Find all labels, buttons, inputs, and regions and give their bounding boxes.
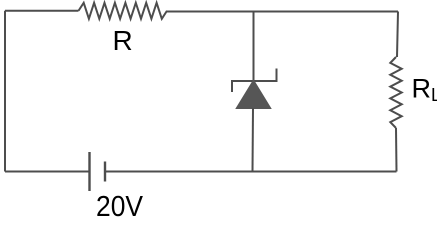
battery short plate (-): [104, 162, 106, 182]
wire: zener branch top (node to cathode): [253, 12, 255, 81]
svg-text:RL: RL: [412, 74, 437, 106]
wire: zener anode to bottom wire: [252, 108, 255, 172]
wire: battery to bottom-right corner: [105, 171, 397, 173]
svg-text:R: R: [113, 25, 133, 56]
battery long plate (+): [88, 152, 90, 191]
wire: top-left horizontal lead: [5, 10, 79, 12]
resistor RL: [390, 57, 401, 128]
wire: top-right vertical down to RL: [397, 12, 398, 58]
wire: RL down to bottom-right corner: [395, 128, 398, 172]
wire: top horizontal, resistor to top-right corner: [167, 11, 398, 13]
zener diode D1 anode triangle: [237, 81, 270, 108]
wire: left vertical side: [4, 11, 6, 172]
wire: bottom-left to battery positive plate: [5, 171, 89, 173]
zener diode D1 cathode bar with bent ends: [232, 69, 277, 93]
resistor R: [79, 3, 168, 19]
svg-text:20V: 20V: [96, 191, 144, 218]
